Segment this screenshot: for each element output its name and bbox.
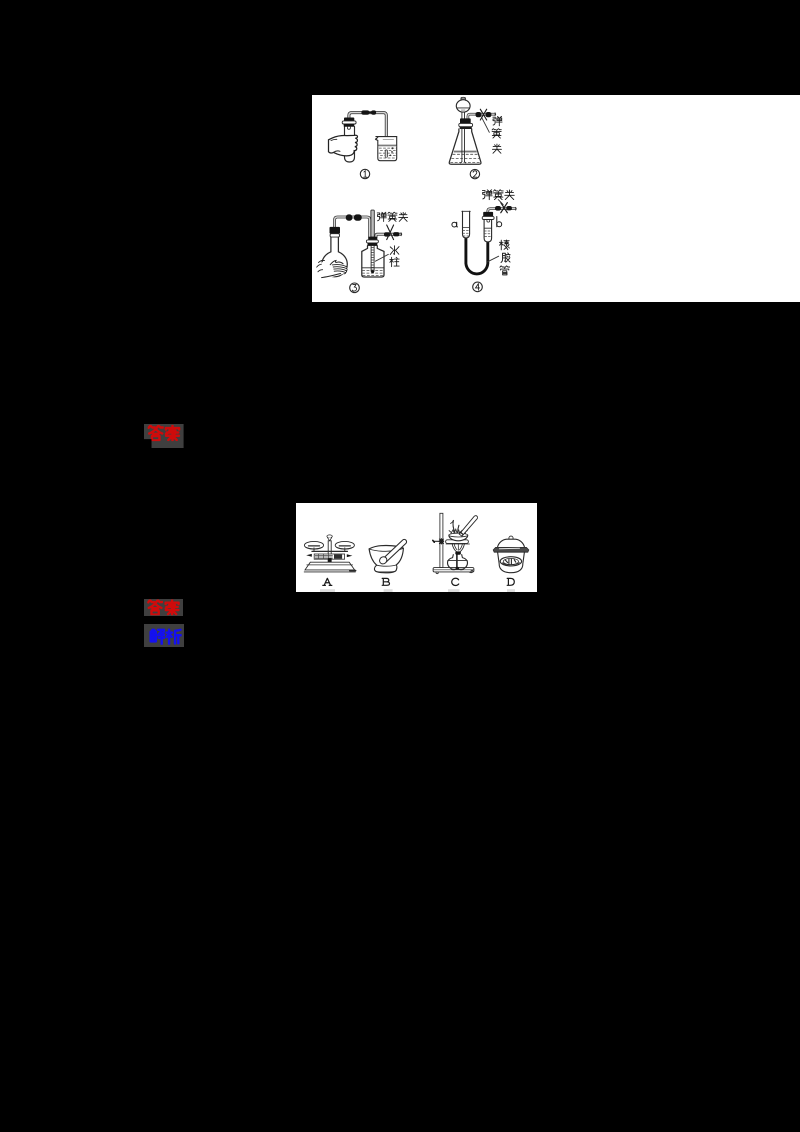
steam squiggles [453,520,459,532]
horizontal label spring clamp [482,190,492,200]
evaporating dish [449,535,468,541]
pointer and pillar [327,535,332,538]
hidden glyph symbol definitions [0,0,1,1]
knob [509,536,513,540]
stand base [433,568,474,572]
water in bottle [362,267,384,269]
vertical label spring clamp (tan huang jia) [493,116,502,126]
right pan [335,541,354,549]
delivery tube from flask to bottle [335,217,370,237]
glass rod [459,516,477,536]
figure 1: gas-tightness apparatus diagrams 1-4 [312,95,800,302]
label circled 3 [350,283,360,293]
flange rim [493,547,529,552]
conical flask [449,129,481,164]
answer label 3 (blue, jie xi) [144,624,184,647]
side tube of bottle [376,234,401,237]
leader to rubber tube [488,256,499,262]
apparatus C: iron stand with evaporating dish and alcohol lamp [433,513,478,592]
test tube a [463,211,470,238]
apparatus 3: flask warmed by hands, bottle with water column and clamp [317,210,408,293]
apparatus 2: conical flask with thistle funnel and clamped side tube [449,97,502,179]
beam [312,550,347,552]
rubber connector joints on tube 3 [346,214,353,220]
beaker with water [376,137,397,161]
spring clamp on side tube [476,112,482,117]
side arrows [306,554,312,557]
answer label 1 (red) [144,424,184,448]
answer label 2 (red) [144,599,183,616]
apparatus 1: bent delivery tube from hand-held test tube to beaker [329,110,397,178]
water column ticks [372,248,374,271]
stand rod [440,513,443,567]
water dashes [379,148,396,158]
wick holder [455,551,461,554]
graduated strip [314,554,344,559]
hand holding test tube [329,135,358,156]
apparatus B: mortar and pestle [369,539,406,592]
leader line to spring clamp label [481,117,489,132]
label circled 4 [473,282,483,292]
inner perforated plate [500,557,521,566]
body [498,552,525,573]
lid dome [498,539,525,547]
water surface in beaker [378,144,397,146]
labels a and b [452,222,457,227]
apparatus D: desiccator [493,536,529,592]
test tube held in hand [345,127,355,162]
stopper of conical flask [460,118,471,123]
iron ring bar [446,540,469,544]
rubber connector joints on tube 1 [369,112,371,114]
U rubber tube [466,236,488,274]
letter B [382,578,389,585]
tube tip in water [385,151,388,156]
flame [452,544,464,552]
vertical label rubber tube (xiang jiao guan) [499,240,509,250]
alcohol lamp body [447,555,467,570]
elbow tube into tube b [488,209,516,212]
thistle funnel stem [462,112,465,162]
figure 2: apparatus choices A-D [296,503,537,592]
spring clamp on bottle side tube [384,232,390,236]
apparatus A: double-pan balance [304,535,355,592]
round-bottom flask [322,236,347,277]
water in flask [454,150,476,152]
letter D [507,578,514,585]
label text explanation (jie xi) blue [151,629,165,644]
mortar bowl [369,545,403,572]
leader line to water column [375,254,388,261]
vertical label water column (shui zhu) [390,246,399,255]
side tube with elbow [468,114,495,118]
delivery tube 1 [349,113,386,157]
leader to clamp [498,200,503,205]
left pan [304,541,323,549]
label circled 1 [360,169,369,178]
hands warming the flask [317,261,348,279]
clamp knob on rod [434,540,440,542]
apparatus 4: U-shaped rubber tube connecting test tubes a and b [452,190,516,292]
wick [456,555,458,567]
stopper of tube b [483,212,493,217]
label text answer (da an) red [149,426,163,441]
spring clamp on tube b [495,206,501,211]
letter C [452,578,459,585]
label text answer (da an) red [148,601,162,615]
pestle [383,539,407,562]
thistle funnel bulb [456,100,470,112]
base [305,562,355,570]
letter A [323,578,332,585]
spattering contents [451,529,466,533]
flask stopper [330,227,341,234]
bottle body [362,246,384,277]
test tube b [484,220,492,242]
test tube stopper [344,118,354,122]
horizontal label spring clamp [377,212,386,221]
bottle stopper [368,237,377,240]
long open glass tube with water column [371,210,374,237]
bubbles at tube mouth [391,147,393,149]
label circled 2 [470,169,479,178]
